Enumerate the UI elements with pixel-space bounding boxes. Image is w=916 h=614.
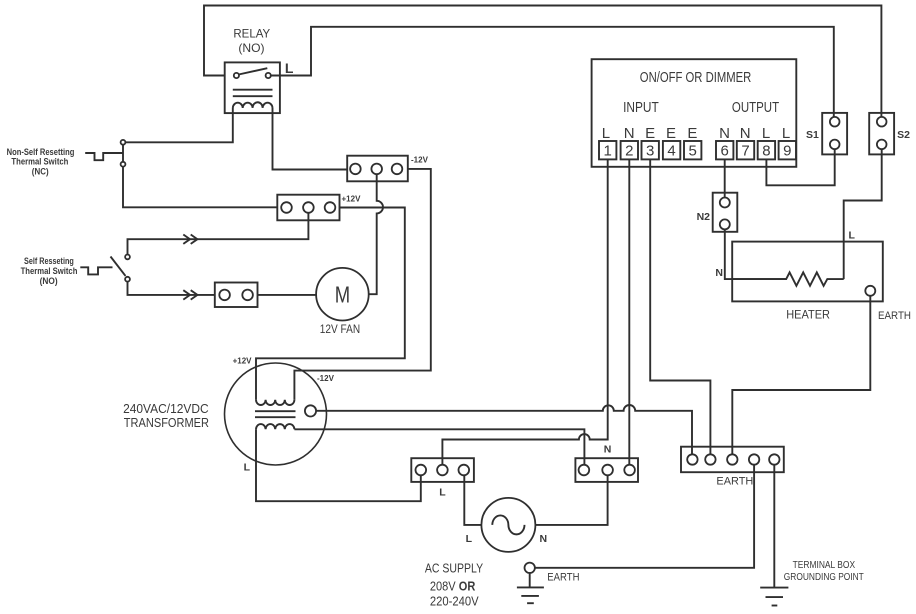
wire relay L output to S1 [271,27,834,117]
svg-text:E: E [645,125,655,142]
svg-text:(NC): (NC) [32,167,49,177]
N terminal block bottom [575,458,638,482]
svg-text:EARTH: EARTH [547,572,579,584]
wire NO switch top to +12V block middle terminal [128,213,309,255]
terminal 2 [621,141,638,160]
svg-text:L: L [849,229,856,241]
svg-text:M: M [335,281,350,307]
svg-text:L: L [439,487,446,499]
wire -12V block middle terminal to motor with hop [369,174,383,294]
svg-text:8: 8 [762,143,770,160]
arrow chevrons on fan return wire [183,290,197,299]
heater resistor element [732,272,844,285]
terminal 1 [599,141,616,160]
wire heater earth terminal to earth block [732,296,870,455]
+12V terminal block [277,195,339,221]
wire relay coil right to -12V block [273,108,348,170]
L terminal block bottom [411,458,474,482]
svg-text:220-240V: 220-240V [430,594,479,609]
terminal letters L N E E E N N L L [602,125,790,142]
wire input terminal 2 N to N block [628,159,630,464]
ground symbol AC supply [517,572,544,603]
svg-text:ON/OFF OR DIMMER: ON/OFF OR DIMMER [640,69,752,86]
wire earth block to terminal box grounding point [773,465,775,588]
svg-text:N: N [624,125,635,142]
S1 terminal block [822,113,847,154]
S2 terminal block [869,113,894,154]
svg-text:240VAC/12VDC: 240VAC/12VDC [123,402,209,416]
svg-text:TERMINAL BOX: TERMINAL BOX [793,560,856,571]
ground symbol terminal box grounding point [760,588,788,606]
svg-text:L: L [466,533,473,545]
wire S2 bottom to heater L [844,149,882,279]
svg-text:+12V: +12V [342,195,362,204]
svg-text:Thermal Switch: Thermal Switch [21,266,78,276]
fan terminal block [215,283,258,308]
wire AC source N to N block [535,475,607,525]
svg-text:EARTH: EARTH [716,476,753,488]
svg-text:-12V: -12V [411,156,429,165]
svg-text:208V OR: 208V OR [430,578,476,593]
svg-text:N: N [740,125,751,142]
svg-text:(NO): (NO) [40,276,58,286]
svg-text:OUTPUT: OUTPUT [732,99,779,116]
wire output terminal 6 N to N2 [724,159,726,197]
wire NC switch bottom to +12V block [123,167,277,208]
svg-text:HEATER: HEATER [786,307,830,321]
svg-text:9: 9 [783,143,791,160]
arrow chevrons on +12V fan feed wire [183,235,197,244]
transformer primary winding [256,424,294,429]
svg-text:EARTH: EARTH [878,310,911,322]
wire N2 to heater N [725,229,786,279]
wire AC earth terminal to earth block [535,465,754,568]
wire input terminal 1 L to L block with hop [442,159,607,464]
heater box [732,242,883,302]
svg-text:N: N [719,125,730,142]
svg-text:(NO): (NO) [238,41,264,55]
terminal 7 [737,141,754,160]
thermal switch NC heater element [85,153,123,160]
wire AC source L to L block [464,475,481,525]
svg-text:TRANSFORMER: TRANSFORMER [124,416,209,430]
wire -12V block to transformer secondary right [294,169,430,400]
heater earth terminal [865,286,875,296]
svg-text:E: E [666,125,676,142]
svg-text:N: N [540,533,548,545]
svg-text:L: L [244,462,251,474]
relay box [225,62,280,113]
AC supply source [481,498,535,552]
svg-text:Self Resseting: Self Resseting [24,256,74,266]
relay contact circles and blade [234,68,271,78]
wire transformer earth tap to earth block with hops [316,405,692,454]
relay coil [233,102,273,108]
wire transformer primary right to N block [294,429,584,464]
transformer circle [225,363,327,465]
svg-text:Thermal Switch: Thermal Switch [11,156,68,166]
thermal switch NC blade [122,142,124,164]
thermal switch NC contacts [121,140,126,167]
svg-text:L: L [285,60,294,76]
svg-text:GROUNDING POINT: GROUNDING POINT [784,572,864,583]
transformer secondary winding [256,400,294,405]
svg-text:6: 6 [721,143,729,160]
wire output terminal 8 L to S1 [766,149,834,185]
wire fan block to motor [258,294,317,296]
svg-text:E: E [687,125,697,142]
svg-text:AC SUPPLY: AC SUPPLY [425,560,483,575]
svg-text:S2: S2 [897,129,910,141]
ON/OFF OR DIMMER box [592,59,797,167]
svg-text:L: L [762,125,770,142]
thermal switch NO heater element [80,267,112,274]
svg-text:L: L [782,125,790,142]
transformer earth tap terminal [305,405,316,416]
svg-text:INPUT: INPUT [623,99,659,116]
svg-text:-12V: -12V [317,374,335,383]
motor M 12V FAN [316,268,369,336]
svg-text:N: N [604,443,612,455]
terminal 9 [779,141,796,160]
svg-text:Non-Self Resetting: Non-Self Resetting [7,147,75,157]
wire NO switch bottom to fan terminal block [128,282,215,295]
svg-text:S1: S1 [806,129,819,141]
terminal 6 [716,141,733,160]
terminal 5 [684,141,701,160]
thermal switch NO blade [111,257,126,276]
svg-text:RELAY: RELAY [233,27,270,41]
svg-text:5: 5 [689,143,697,160]
wire top: relay feed to S2 [204,6,881,117]
svg-text:N2: N2 [697,211,711,223]
AC earth terminal [525,563,535,573]
svg-text:12V FAN: 12V FAN [320,324,360,336]
terminal 8 [758,141,775,160]
svg-text:3: 3 [646,143,654,160]
earth terminal block [681,447,784,473]
svg-text:+12V: +12V [233,357,253,366]
svg-text:L: L [602,125,610,142]
svg-text:N: N [715,267,723,279]
wire +12V block to transformer primary left [256,208,405,400]
relay core lines [233,90,273,97]
thermal switch NO contacts [125,255,130,282]
wire relay coil left to NC switch [125,108,233,142]
terminal 3 [642,141,659,160]
wire transformer primary left to L block [256,429,421,501]
wire input terminal 3 E to earth block [650,159,710,454]
transformer core lines [255,411,296,417]
N2 terminal block [713,193,738,232]
svg-text:1: 1 [604,143,612,160]
svg-text:4: 4 [667,143,675,160]
-12V terminal block [347,156,408,182]
svg-text:7: 7 [741,143,749,160]
terminal 4 [663,141,680,160]
svg-text:2: 2 [625,143,633,160]
